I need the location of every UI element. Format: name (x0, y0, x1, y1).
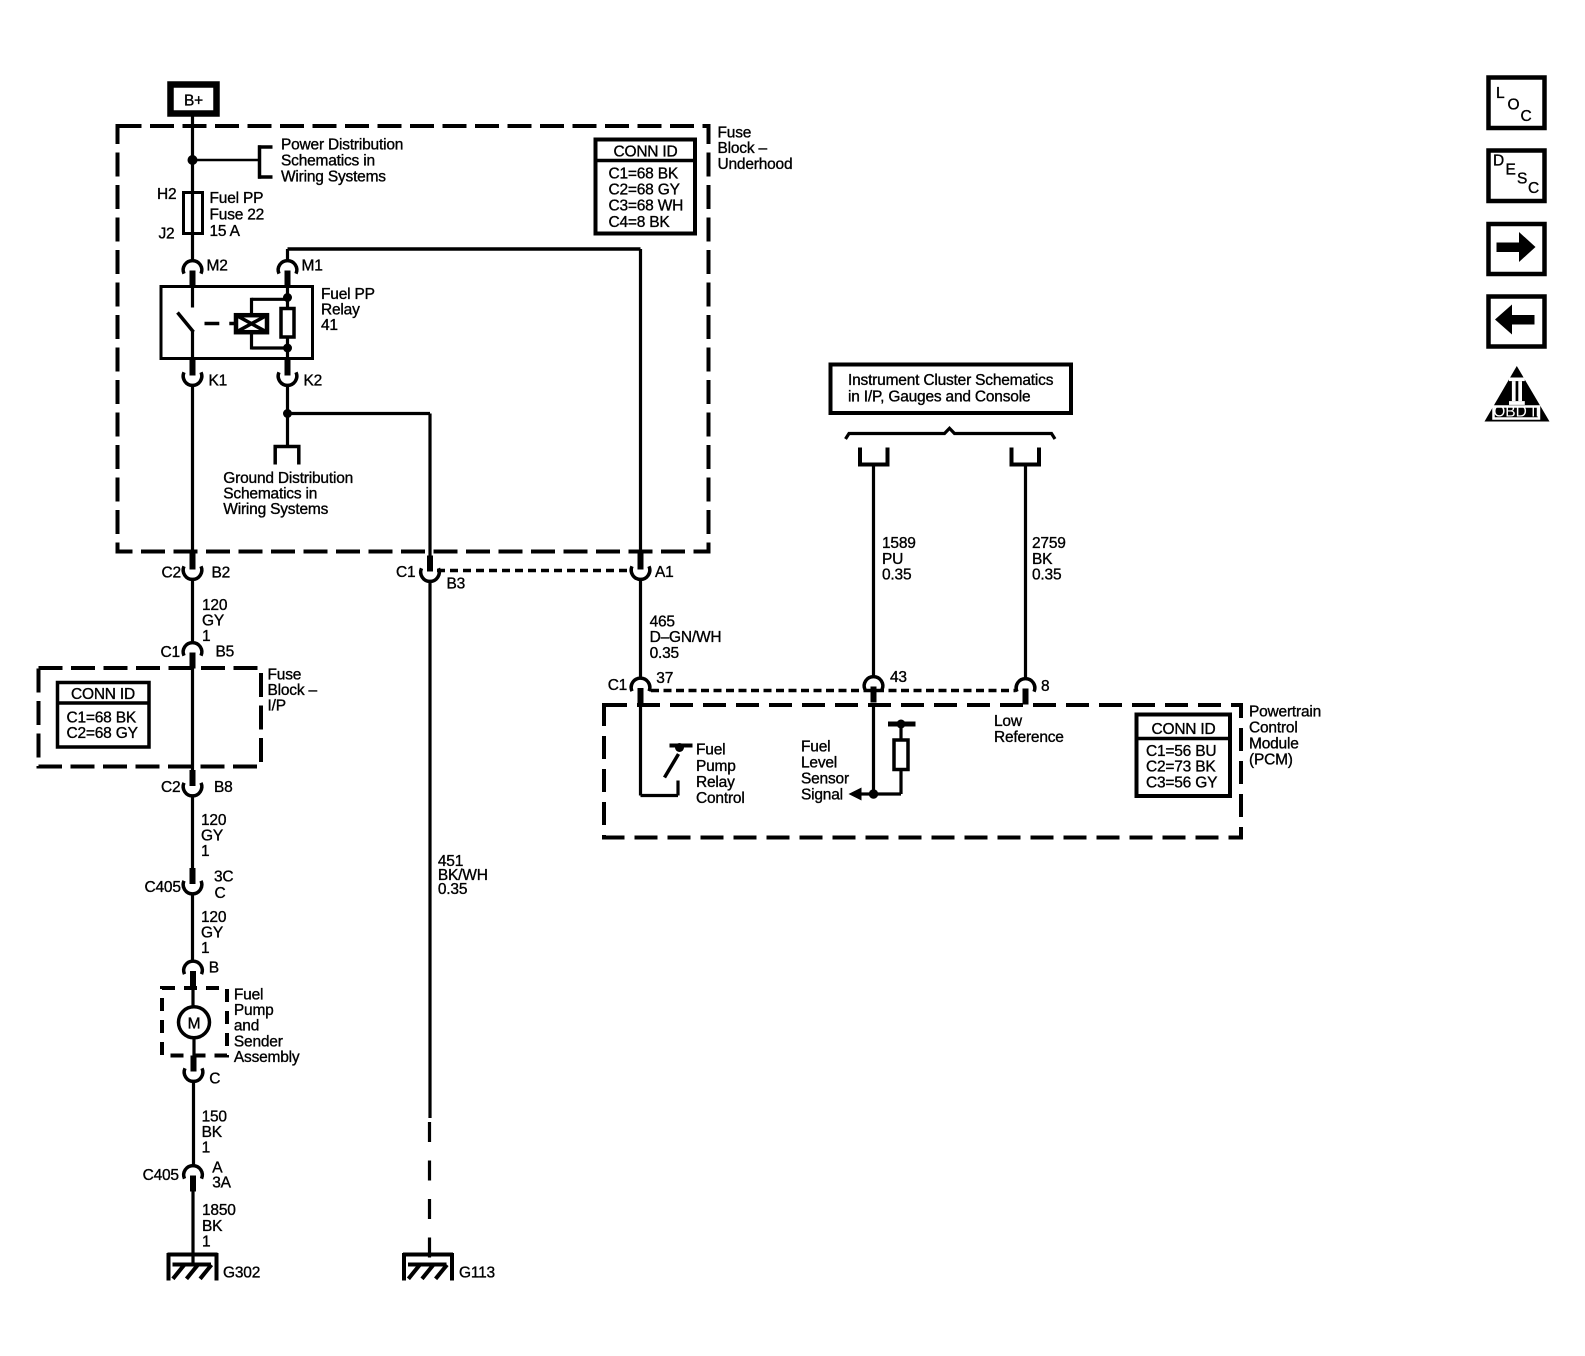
svg-text:M: M (188, 1016, 201, 1033)
svg-text:K2: K2 (304, 373, 323, 390)
svg-text:1589: 1589 (882, 535, 916, 552)
svg-text:K1: K1 (209, 373, 228, 390)
pin label B3 (447, 576, 466, 593)
svg-text:C: C (1528, 180, 1539, 197)
label C1 (at PCM 37) (608, 677, 627, 694)
svg-text:Control: Control (1249, 720, 1298, 737)
svg-text:C1: C1 (608, 677, 627, 694)
label wire 1589 PU 0.35 (882, 535, 916, 583)
label Power Distribution Schematics in Wiring Systems (281, 137, 403, 186)
motor M (fuel pump motor) (179, 1007, 210, 1038)
label wire 1850 BK 1 (202, 1202, 236, 1250)
svg-text:Pump: Pump (234, 1002, 274, 1019)
label C2 (at B8) (161, 779, 180, 796)
svg-text:Level: Level (801, 755, 837, 772)
fuse block underhood dashed outline (118, 126, 709, 552)
pin label A (212, 1160, 223, 1177)
pin label B8 (214, 779, 233, 796)
svg-text:I/P: I/P (268, 698, 286, 715)
svg-text:C1=68 BK: C1=68 BK (609, 166, 679, 183)
svg-text:BK: BK (202, 1218, 223, 1235)
svg-text:Schematics in: Schematics in (281, 153, 375, 170)
wire 120 GY (C405 to pump B) (191, 894, 194, 961)
junction node at relay coil bottom (283, 344, 292, 353)
svg-text:H2: H2 (157, 186, 176, 203)
pin label C (of C405) (215, 885, 226, 902)
fuel level sensor wiper bar (888, 722, 916, 727)
connector C1 terminal B5 (183, 643, 202, 669)
relay switch fixed lead (from M2) (191, 287, 194, 308)
reference bracket (to Ground Distribution Schematics) (274, 445, 301, 465)
svg-text:GY: GY (202, 613, 224, 630)
svg-text:120: 120 (201, 909, 227, 926)
svg-text:B8: B8 (214, 779, 233, 796)
svg-text:8: 8 (1041, 678, 1049, 695)
label wire 2759 BK 0.35 (1032, 535, 1066, 583)
pin label 8 (1041, 678, 1049, 695)
wire 120 GY (B8 to C405) (191, 796, 194, 868)
label wire 451 BK/WH 0.35 (438, 853, 488, 898)
svg-text:C2=68 GY: C2=68 GY (609, 182, 680, 199)
svg-text:1: 1 (201, 843, 209, 860)
connector C1 terminal B3 (421, 556, 440, 582)
svg-text:Reference: Reference (994, 729, 1064, 746)
relay coil (box with X) (236, 315, 267, 332)
svg-text:C: C (1521, 108, 1532, 125)
svg-text:0.35: 0.35 (438, 881, 467, 898)
pin label B (209, 960, 219, 977)
wire 1850 BK (C405 to G302) (191, 1192, 194, 1265)
label Fuel PP Fuse 22 15 A (210, 190, 265, 240)
pin label C (of pump) (209, 1071, 220, 1088)
svg-text:465: 465 (650, 613, 675, 630)
svg-text:Instrument Cluster Schematics: Instrument Cluster Schematics (848, 372, 1054, 389)
connector C1 terminal 37 (PCM) (631, 678, 650, 704)
wire 120 GY (B2 to B5) (191, 580, 194, 644)
svg-text:Pump: Pump (696, 758, 736, 775)
connector pin K1 of Fuel PP Relay (183, 360, 202, 386)
label Powertrain Control Module (PCM) (1249, 704, 1321, 769)
svg-text:1850: 1850 (202, 1202, 236, 1219)
svg-text:GY: GY (201, 925, 223, 942)
CONN ID table, Fuse Block Underhood (596, 140, 696, 234)
svg-text:2759: 2759 (1032, 535, 1066, 552)
svg-text:3A: 3A (212, 1175, 231, 1192)
junction node at relay coil top (283, 293, 292, 302)
driver switch contact node (675, 743, 684, 752)
svg-text:C405: C405 (143, 1167, 179, 1184)
label C1 (at B5) (161, 644, 180, 661)
fuse 22 (Fuel PP Fuse, 15 A) (184, 193, 203, 234)
label Fuse Block Underhood (718, 125, 793, 173)
svg-text:CONN ID: CONN ID (71, 686, 135, 703)
relay switch lead to K1 (191, 331, 194, 359)
svg-text:A1: A1 (655, 564, 674, 581)
connector C2 terminal B8 (183, 770, 202, 796)
svg-text:Fuse: Fuse (718, 125, 752, 142)
pin label H2 (157, 186, 176, 203)
instrument cluster terminal (right) (1010, 448, 1042, 465)
wire 1589 PU (cluster to PCM 43) (872, 465, 875, 677)
svg-text:G302: G302 (223, 1265, 260, 1282)
ground G113 (403, 1253, 453, 1281)
icon button DESC (1489, 151, 1545, 202)
svg-text:E: E (1506, 162, 1516, 179)
svg-text:1: 1 (202, 1233, 210, 1250)
wire junction right and down to terminal B3 (288, 414, 431, 557)
svg-text:BK: BK (1032, 551, 1053, 568)
svg-text:C405: C405 (145, 879, 181, 896)
svg-text:C4=8 BK: C4=8 BK (609, 214, 671, 231)
svg-text:Schematics in: Schematics in (223, 485, 317, 502)
svg-text:C: C (209, 1071, 220, 1088)
connector terminal 43 (PCM) (864, 677, 883, 703)
svg-text:C1: C1 (396, 564, 415, 581)
svg-text:C1: C1 (161, 644, 180, 661)
wire K2 down to branch junction (286, 386, 289, 447)
pin label 37 (656, 670, 673, 687)
svg-text:O: O (1508, 97, 1520, 114)
svg-text:120: 120 (202, 597, 228, 614)
fuel level sensor resistor (874, 726, 909, 794)
label wire 120 GY 1 (middle) (201, 812, 227, 860)
svg-text:CONN ID: CONN ID (1151, 721, 1215, 738)
svg-text:1: 1 (202, 1140, 210, 1157)
svg-text:Block –: Block – (268, 682, 318, 699)
svg-text:Relay: Relay (696, 774, 735, 791)
powertrain control module dashed outline (604, 705, 1241, 838)
svg-text:Assembly: Assembly (234, 1049, 300, 1066)
svg-text:0.35: 0.35 (1032, 567, 1061, 584)
driver switch movable arm (665, 754, 679, 778)
icon button forward arrow (1489, 224, 1545, 274)
instrument cluster schematics reference box (831, 365, 1072, 414)
pin label 43 (890, 669, 907, 686)
svg-text:15 A: 15 A (210, 223, 241, 240)
svg-text:D–GN/WH: D–GN/WH (650, 629, 722, 646)
junction node on K2 branch (283, 409, 292, 418)
svg-text:43: 43 (890, 669, 907, 686)
svg-text:150: 150 (202, 1109, 228, 1126)
wire relay pin M1 up and right to A1 branch (288, 249, 641, 553)
svg-text:37: 37 (656, 670, 673, 687)
label wire 120 GY 1 (lower) (201, 909, 227, 957)
pin label 3C (214, 869, 233, 886)
svg-text:0.35: 0.35 (882, 567, 911, 584)
label Fuse Block I/P (268, 667, 318, 715)
label G113 (459, 1265, 495, 1282)
pin label A1 (655, 564, 674, 581)
label Fuel PP Relay 41 (321, 286, 375, 334)
svg-text:Fuel: Fuel (234, 987, 263, 1004)
svg-text:Sender: Sender (234, 1033, 283, 1050)
icon button LOC (1489, 78, 1545, 129)
icon OBD II (1485, 366, 1550, 422)
svg-text:0.35: 0.35 (650, 645, 679, 662)
connector C1 terminal A1 (631, 554, 650, 580)
connector C405 terminals 3C / C (183, 868, 202, 894)
svg-text:D: D (1493, 153, 1504, 170)
pin label K1 (209, 373, 228, 390)
wire PCM 37 to driver switch (641, 705, 679, 796)
svg-text:Ground Distribution: Ground Distribution (223, 470, 353, 487)
wire PCM 43 to fuel level sensor (872, 705, 875, 794)
connector C405 terminals A / 3A (184, 1166, 203, 1192)
svg-text:1: 1 (202, 628, 210, 645)
svg-text:Fuel PP: Fuel PP (210, 190, 264, 207)
pin label J2 (159, 226, 175, 243)
svg-text:Power Distribution: Power Distribution (281, 137, 403, 154)
svg-text:Block –: Block – (718, 140, 768, 157)
svg-text:J2: J2 (159, 226, 175, 243)
pin label K2 (304, 373, 323, 390)
svg-text:Wiring Systems: Wiring Systems (281, 169, 386, 186)
relay lead K2 (286, 348, 289, 359)
svg-text:M2: M2 (207, 258, 228, 275)
junction node on B+ feed (188, 155, 198, 165)
dotted harness link 37 / 43 / 8 (651, 689, 1015, 693)
fuel level sensor wiper node (897, 720, 906, 729)
svg-text:C2=68 GY: C2=68 GY (67, 725, 138, 742)
connector pin M1 of Fuel PP Relay (278, 261, 297, 287)
svg-text:C2: C2 (162, 565, 181, 582)
fuel pump and sender assembly dashed outline (162, 988, 227, 1056)
wire branch to Power Distribution reference (193, 159, 260, 162)
relay internal resistor (281, 298, 294, 349)
label wire 120 GY 1 (upper) (202, 597, 228, 645)
svg-text:Wiring Systems: Wiring Systems (223, 501, 328, 518)
svg-text:B5: B5 (216, 644, 235, 661)
svg-text:Low: Low (994, 713, 1023, 730)
pin label B5 (216, 644, 235, 661)
svg-text:B: B (209, 960, 219, 977)
wire 2759 BK (cluster to PCM 8) (1024, 465, 1027, 679)
instrument cluster terminal (left) (858, 448, 890, 465)
relay 41 Fuel PP Relay outline (161, 287, 313, 359)
pin label M1 (302, 258, 323, 275)
svg-text:B3: B3 (447, 576, 466, 593)
label C405 (lower) (143, 1167, 179, 1184)
wire 465 D-GN/WH (A1 to PCM 37) (639, 580, 642, 679)
svg-text:GY: GY (201, 827, 223, 844)
svg-text:G113: G113 (459, 1265, 495, 1282)
wire B+ feed down to Fuse 22 (191, 116, 194, 194)
svg-text:Powertrain: Powertrain (1249, 704, 1321, 721)
svg-text:41: 41 (321, 317, 338, 334)
svg-text:BK: BK (202, 1124, 223, 1141)
relay coil branch wiring (252, 287, 288, 350)
svg-text:L: L (1496, 85, 1505, 102)
label C1 (at B3) (396, 564, 415, 581)
icon button back arrow (1489, 297, 1545, 347)
svg-text:CONN ID: CONN ID (613, 144, 677, 161)
relay switch movable arm (178, 313, 194, 333)
svg-text:120: 120 (201, 812, 227, 829)
CONN ID table, Fuse Block I/P (58, 683, 150, 748)
svg-text:OBD II: OBD II (1493, 403, 1540, 420)
fuse block I/P dashed outline (39, 668, 262, 767)
svg-text:Module: Module (1249, 736, 1299, 753)
svg-text:Fuse: Fuse (268, 667, 302, 684)
label C2 (at B2) (162, 565, 181, 582)
svg-text:Sensor: Sensor (801, 771, 849, 788)
pin label M2 (207, 258, 228, 275)
svg-text:and: and (234, 1018, 259, 1035)
svg-text:PU: PU (882, 551, 903, 568)
svg-text:Control: Control (696, 790, 745, 807)
label Low Reference (994, 713, 1064, 746)
svg-text:C2: C2 (161, 779, 180, 796)
svg-text:Fuel: Fuel (696, 742, 725, 759)
svg-text:M1: M1 (302, 258, 323, 275)
svg-text:1: 1 (201, 940, 209, 957)
wire pump C lead (192, 1038, 195, 1056)
svg-text:Signal: Signal (801, 787, 843, 804)
label G302 (223, 1265, 260, 1282)
svg-text:Fuel: Fuel (801, 739, 830, 756)
connector terminal 8 (PCM) (1016, 679, 1035, 705)
label Ground Distribution Schematics in Wiring Systems (223, 470, 353, 518)
wire through fuse block I/P (191, 669, 194, 771)
power symbol B+ (battery positive voltage) (171, 85, 217, 114)
CONN ID table, PCM (1137, 715, 1231, 797)
brace under instrument cluster box (846, 428, 1056, 439)
pin label 3A (212, 1175, 231, 1192)
relay actuation dashed link (205, 322, 237, 326)
reference bracket (to Power Distribution Schematics) (258, 145, 273, 178)
wire pump B lead (191, 987, 194, 1007)
svg-text:Underhood: Underhood (718, 156, 793, 173)
svg-text:S: S (1517, 171, 1527, 188)
wire 451 BK/WH dashed segment to G113 (428, 1122, 431, 1264)
driver switch contact bar (670, 744, 693, 748)
wire Fuse 22 to relay pin M2 (191, 233, 194, 260)
pin label B2 (212, 565, 231, 582)
svg-text:C2=73 BK: C2=73 BK (1146, 759, 1216, 776)
svg-text:C3=56 GY: C3=56 GY (1146, 774, 1217, 791)
connector pin K2 of Fuel PP Relay (278, 360, 297, 386)
svg-text:C1=56 BU: C1=56 BU (1146, 743, 1216, 760)
connector C2 terminal B2 (183, 554, 202, 580)
svg-text:3C: 3C (214, 869, 233, 886)
ground G302 (168, 1253, 218, 1281)
junction node at fuel level sensor (869, 789, 878, 798)
label Fuel Level Sensor Signal (801, 739, 849, 804)
svg-text:(PCM): (PCM) (1249, 752, 1293, 769)
label wire 465 D-GN/WH 0.35 (650, 613, 722, 661)
label Fuel Pump and Sender Assembly (234, 987, 300, 1066)
connector pin M2 of Fuel PP Relay (183, 261, 202, 287)
label C405 (upper) (145, 879, 181, 896)
label wire 150 BK 1 (202, 1109, 228, 1157)
connector terminal C of Fuel Pump (184, 1056, 203, 1082)
connector terminal B of Fuel Pump (184, 961, 203, 987)
dashed harness link B3 to A1 (437, 569, 633, 573)
signal arrow (fuel level sensor signal) (849, 788, 874, 801)
wire K1 down to terminal B2 (191, 386, 194, 555)
svg-text:C3=68 WH: C3=68 WH (609, 198, 684, 215)
svg-text:B2: B2 (212, 565, 231, 582)
svg-text:in I/P, Gauges and Console: in I/P, Gauges and Console (848, 388, 1030, 405)
svg-text:C: C (215, 885, 226, 902)
svg-text:C1=68 BK: C1=68 BK (67, 710, 137, 727)
svg-text:Fuse 22: Fuse 22 (210, 206, 265, 223)
wire 451 BK/WH solid segment (B3 down) (428, 582, 431, 1119)
wire 150 BK (C to C405) (192, 1082, 195, 1167)
svg-text:B+: B+ (184, 93, 203, 110)
label Fuel Pump Relay Control (696, 742, 745, 808)
